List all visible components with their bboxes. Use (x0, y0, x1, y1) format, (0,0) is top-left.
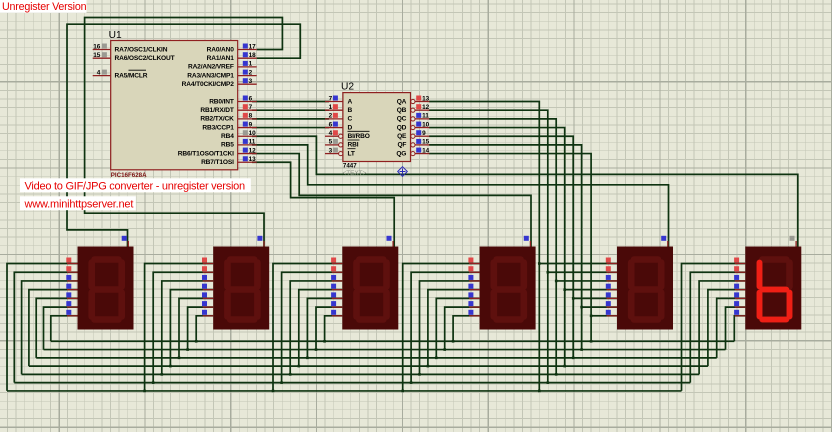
wire junction (452, 340, 455, 343)
wire junction (555, 373, 558, 376)
bus wire segment E (36, 357, 717, 359)
display 3 ghost segments (357, 260, 387, 320)
display 3 segment pin F (332, 306, 343, 308)
svg-text:RA2/AN2/VREF: RA2/AN2/VREF (188, 64, 234, 71)
display 4 segment pin D (469, 289, 480, 291)
display 6 segment pin F (735, 306, 746, 308)
U2 right pin 9 QE (411, 134, 415, 138)
svg-text:QC: QC (397, 116, 407, 123)
svg-text:QD: QD (397, 124, 407, 131)
wire junction (143, 390, 146, 393)
wire junction (547, 271, 550, 274)
U1 right pin 9 RB3/CCP1 (238, 127, 257, 129)
svg-text:RB2/TX/CK: RB2/TX/CK (200, 116, 234, 123)
wire riser display6 row 7 (734, 316, 745, 341)
display 6 segment pin E (735, 297, 746, 299)
display 6 lit segments f e d c g showing digit 6 (760, 263, 790, 320)
svg-text:RA3/AN3/CMP1: RA3/AN3/CMP1 (187, 72, 234, 79)
wire RB1 to U2 B (252, 109, 329, 111)
display 2 segment pin E (203, 297, 214, 299)
wire junction (161, 373, 164, 376)
svg-text:QA: QA (397, 98, 407, 105)
wire junction (590, 315, 593, 318)
wire net QA from U2 to bus (429, 102, 539, 391)
svg-text:LT: LT (348, 150, 355, 157)
display 4 segment pin F (469, 306, 480, 308)
wire riser display2 row 6 (188, 307, 214, 349)
wire riser display4 row 5 (436, 298, 479, 357)
wire riser display4 row 7 (453, 316, 480, 341)
svg-text:12: 12 (422, 104, 430, 111)
svg-text:RB5: RB5 (221, 142, 234, 149)
svg-text:www.minihttpserver.net: www.minihttpserver.net (24, 199, 134, 211)
svg-text:10: 10 (249, 130, 257, 137)
display 6 segment pin B (735, 271, 746, 273)
bus wire segment B (14, 382, 690, 384)
svg-text:18: 18 (249, 52, 257, 59)
display 1 common pin (127, 241, 129, 247)
display 2 segment pin A (203, 263, 214, 265)
svg-text:RB4: RB4 (221, 133, 234, 140)
display 3 segment pin C (332, 280, 343, 282)
display 4 segment pin C (469, 280, 480, 282)
U2 left pin 7 A (325, 101, 343, 103)
U1 right pin 2 RA3/AN3/CMP1 (238, 75, 257, 77)
op-amp U1 PIC16F628A microcontroller body (111, 41, 238, 170)
svg-text:RB0/INT: RB0/INT (209, 98, 234, 105)
wire display1 pin row 5 to bus (36, 298, 77, 357)
wire junction (178, 357, 181, 360)
svg-text:15: 15 (422, 139, 430, 146)
wire riser display4 row 1 (403, 264, 480, 391)
U1 right pin 1 RA2/AN2/VREF (238, 66, 257, 68)
display 1 segment pin A (67, 263, 78, 265)
wire riser display6 row 2 (690, 272, 745, 382)
wire net QG from U2 to bus (429, 154, 591, 342)
U2 left pin 3 LT (325, 153, 339, 155)
display 1 ghost segments (92, 260, 122, 320)
U1 right pin 6 RB0/INT (238, 101, 257, 103)
display 4 ghost segments (494, 260, 524, 320)
svg-text:8: 8 (249, 113, 253, 120)
wire riser display3 row 7 (325, 316, 343, 341)
wire junction (443, 348, 446, 351)
wire RB0 to U2 A (252, 101, 329, 103)
svg-text:B: B (348, 107, 353, 114)
svg-text:D: D (348, 124, 353, 131)
svg-text:<TEXT>: <TEXT> (343, 170, 367, 177)
svg-text:3: 3 (329, 147, 333, 154)
wire riser display6 row 6 (726, 307, 746, 349)
watermark unregister version top (0, 0, 87, 13)
svg-text:15: 15 (93, 52, 101, 59)
wire riser display6 row 5 (717, 298, 746, 357)
U1 right pin 18 RA1/AN1 (238, 57, 257, 59)
display 6 segment pin G (735, 315, 746, 317)
7-segment display 5 body (617, 247, 673, 330)
wire net RB7 to display3 common (252, 162, 394, 246)
display 4 common pin (529, 241, 531, 247)
svg-text:7447: 7447 (343, 163, 357, 170)
wire riser display6 row 3 (699, 281, 745, 374)
wire riser display4 row 6 (445, 307, 480, 349)
wire net RA1 to display1 common (67, 24, 300, 246)
U1 MCLR overline (129, 69, 147, 71)
svg-text:RB6/T1OSO/T1CKI: RB6/T1OSO/T1CKI (178, 150, 234, 157)
wire junction (547, 381, 550, 384)
display 2 common pin (263, 241, 265, 247)
bus wire segment D (29, 365, 708, 367)
display 6 segment pin D (735, 289, 746, 291)
U1 left pin 15 RA6/OSC2/CLKOUT (93, 57, 111, 59)
svg-text:17: 17 (249, 43, 257, 50)
svg-text:RA6/OSC2/CLKOUT: RA6/OSC2/CLKOUT (115, 55, 175, 62)
7-segment display 4 body (480, 247, 536, 330)
wire tap QC to display5 row 3 (556, 280, 617, 282)
svg-text:2: 2 (249, 69, 253, 76)
svg-text:RB7/T1OSI: RB7/T1OSI (201, 159, 234, 166)
display 1 segment pin E (67, 297, 78, 299)
display 3 segment pin G (332, 315, 343, 317)
U2 right pin 14 QG (411, 151, 415, 155)
wire junction (572, 297, 575, 300)
svg-text:11: 11 (422, 113, 429, 120)
display 5 segment pin A (607, 263, 618, 265)
svg-text:RBI: RBI (348, 142, 359, 149)
display 6 segment pin C (735, 280, 746, 282)
display 1 segment pin D (67, 289, 78, 291)
wire junction (280, 381, 283, 384)
wire junction (572, 357, 575, 360)
wire junction (186, 348, 189, 351)
svg-text:BI/RBO: BI/RBO (348, 133, 370, 140)
wire net QB from U2 to bus (429, 110, 548, 382)
wire junction (289, 373, 292, 376)
wire riser display4 row 2 (411, 272, 480, 382)
wire junction (563, 365, 566, 368)
display 5 segment pin B (607, 271, 618, 273)
U2 origin marker diamond (398, 167, 408, 177)
svg-text:1: 1 (329, 104, 333, 111)
wire display1 pin row 3 to bus (22, 281, 78, 374)
wire riser display3 row 2 (282, 272, 343, 382)
wire junction (298, 365, 301, 368)
wire tap QG to display5 row 7 (591, 315, 617, 317)
svg-text:QF: QF (397, 142, 406, 149)
svg-text:14: 14 (422, 147, 430, 154)
display 2 segment pin C (203, 280, 214, 282)
wire riser display2 row 3 (162, 281, 213, 374)
U2 left pin 2 C (325, 118, 343, 120)
wire display1 pin row 6 to bus (44, 307, 78, 349)
svg-text:4: 4 (97, 69, 101, 76)
svg-text:4: 4 (329, 130, 333, 137)
U1 right pin 12 RB6/T1OSO/T1CKI (238, 153, 257, 155)
svg-text:5: 5 (329, 139, 333, 146)
U1 right pin 3 RA4/T0CKI/CMP2 (238, 83, 257, 85)
wire junction (427, 365, 430, 368)
display 3 segment pin D (332, 289, 343, 291)
wire RB2 to U2 C (252, 118, 329, 120)
svg-text:RB1/RX/DT: RB1/RX/DT (200, 107, 234, 114)
U2 right pin 15 QF (411, 143, 415, 147)
wire riser display3 row 1 (273, 264, 342, 391)
wire net QE from U2 to bus (429, 136, 573, 358)
wire tap QE to display5 row 5 (573, 297, 617, 299)
wire tap QA to display5 row 1 (539, 263, 617, 265)
wire junction (169, 365, 172, 368)
wire junction (401, 390, 404, 393)
svg-text:12: 12 (249, 147, 257, 154)
svg-text:C: C (348, 116, 353, 123)
display 1 segment pin C (67, 280, 78, 282)
svg-text:Unregister Version: Unregister Version (2, 1, 87, 13)
wire net QD from U2 to bus (429, 128, 565, 367)
display 5 segment pin C (607, 280, 618, 282)
7-segment display 3 body (342, 247, 398, 330)
U2 left pin 5 RBI (325, 144, 339, 146)
svg-text:9: 9 (422, 130, 426, 137)
wire junction (195, 340, 198, 343)
U2 right pin 10 QD (411, 125, 415, 129)
display 2 segment pin D (203, 289, 214, 291)
display 2 segment pin B (203, 271, 214, 273)
wire riser display3 row 4 (299, 290, 343, 366)
display 4 segment pin B (469, 271, 480, 273)
display 3 segment pin A (332, 263, 343, 265)
wire junction (555, 280, 558, 283)
display 2 ghost segments (227, 260, 257, 320)
display 4 segment pin A (469, 263, 480, 265)
display 2 segment pin F (203, 306, 214, 308)
svg-text:7: 7 (329, 95, 333, 102)
wire tap QB to display5 row 2 (548, 271, 617, 273)
display 3 segment pin E (332, 297, 343, 299)
watermark url line (20, 196, 136, 210)
U2 right pin 13 QA (411, 99, 415, 103)
wire junction (563, 288, 566, 291)
svg-text:QB: QB (397, 107, 407, 114)
display 5 common pin (667, 241, 669, 247)
svg-text:RA1/AN1: RA1/AN1 (207, 55, 235, 62)
U2 BI/RBO overline (348, 130, 370, 132)
svg-text:2: 2 (329, 113, 333, 120)
svg-text:QE: QE (397, 133, 407, 140)
wire riser display4 row 3 (420, 281, 480, 374)
wire display1 pin row 4 to bus (29, 290, 78, 366)
U2 right pin 12 QB (411, 108, 415, 112)
bus wire segment G (51, 340, 735, 342)
wire riser display2 row 1 (145, 264, 214, 391)
wire junction (272, 390, 275, 393)
svg-text:RA0/AN0: RA0/AN0 (207, 46, 235, 53)
wire riser display2 row 7 (196, 316, 213, 341)
svg-text:16: 16 (93, 43, 101, 50)
svg-text:6: 6 (249, 95, 253, 102)
wire display1 pin row 7 to bus (51, 316, 78, 341)
display 2 segment pin G (203, 315, 214, 317)
display 4 segment pin G (469, 315, 480, 317)
display 1 segment pin B (67, 271, 78, 273)
display 6 common pin (795, 241, 797, 247)
U1 right pin 10 RB4 (238, 135, 257, 137)
U2 left pin 4 BI/RBO (325, 135, 339, 137)
svg-text:U2: U2 (341, 82, 354, 93)
display 1 segment pin F (67, 306, 78, 308)
bus wire segment F (44, 349, 726, 351)
wire junction (580, 306, 583, 309)
svg-text:13: 13 (249, 156, 257, 163)
svg-text:RA5/MCLR: RA5/MCLR (115, 72, 148, 79)
svg-text:11: 11 (249, 139, 256, 146)
wire junction (538, 390, 541, 393)
display 5 segment pin D (607, 289, 618, 291)
svg-text:QG: QG (396, 150, 406, 157)
display 1 segment pin G (67, 315, 78, 317)
wire net QC from U2 to bus (429, 119, 556, 375)
wire tap QD to display5 row 4 (565, 289, 617, 291)
wire junction (418, 373, 421, 376)
wire riser display2 row 2 (153, 272, 213, 382)
wire riser display6 row 4 (708, 290, 745, 366)
svg-text:PIC16F628A: PIC16F628A (111, 172, 147, 179)
svg-text:RA4/T0CKI/CMP2: RA4/T0CKI/CMP2 (182, 81, 235, 88)
wire display1 pin row 2 to bus (14, 272, 77, 382)
svg-text:A: A (348, 98, 353, 105)
U2 left pin 6 D (325, 127, 343, 129)
wire net RA0 to display2 common (85, 18, 283, 247)
wire riser display4 row 4 (428, 290, 480, 366)
wire tap QF to display5 row 6 (582, 306, 617, 308)
svg-text:U1: U1 (109, 30, 122, 41)
U1 right pin 17 RA0/AN0 (238, 49, 257, 51)
wire net RB6 to display4 common (252, 154, 531, 247)
svg-text:3: 3 (249, 78, 253, 85)
svg-text:Video to GIF/JPG converter - u: Video to GIF/JPG converter - unregister … (25, 181, 245, 193)
svg-text:1: 1 (249, 61, 253, 68)
wire net QF from U2 to bus (429, 145, 582, 350)
svg-text:7: 7 (249, 104, 253, 111)
display 4 segment pin E (469, 297, 480, 299)
wire display1 pin row 1 to bus (7, 264, 78, 391)
wire RB3 to U2 D (252, 127, 329, 129)
7-segment display 2 body (213, 247, 269, 330)
display 6 ghost segments (760, 260, 790, 320)
7-segment display 6 body (745, 247, 801, 330)
U2 left pin 1 B (325, 109, 343, 111)
svg-text:6: 6 (329, 121, 333, 128)
display 3 segment pin B (332, 271, 343, 273)
7-segment display 1 body (78, 247, 134, 330)
display 5 ghost segments (631, 260, 661, 320)
svg-text:9: 9 (249, 121, 253, 128)
svg-text:10: 10 (422, 121, 430, 128)
U2 RBI overline (348, 139, 360, 141)
wire junction (306, 357, 309, 360)
U2 right pin 11 QC (411, 117, 415, 121)
wire junction (435, 357, 438, 360)
svg-text:RB3/CCP1: RB3/CCP1 (202, 124, 234, 131)
wire riser display3 row 5 (307, 298, 342, 357)
display 5 segment pin G (607, 315, 618, 317)
wire junction (152, 381, 155, 384)
display 6 segment pin A (735, 263, 746, 265)
svg-text:13: 13 (422, 95, 430, 102)
U1 left pin 4 RA5/MCLR (93, 75, 111, 77)
wire junction (323, 340, 326, 343)
wire riser display2 row 4 (170, 290, 213, 366)
bus wire segment C (22, 373, 700, 375)
wire riser display6 row 1 (682, 264, 746, 391)
wire net RB4 to display6 common (252, 136, 798, 246)
bus wire segment A (7, 390, 682, 392)
watermark video converter line (20, 178, 251, 192)
wire riser display3 row 6 (316, 307, 342, 349)
U2 LT overline (348, 148, 356, 150)
wire junction (590, 340, 593, 343)
U1 right pin 11 RB5 (238, 144, 257, 146)
U1 right pin 8 RB2/TX/CK (238, 118, 257, 120)
U1 left pin 16 RA7/OSC1/CLKIN (93, 49, 111, 51)
display 5 segment pin E (607, 297, 618, 299)
wire junction (410, 381, 413, 384)
wire net RB5 to display5 common (252, 145, 669, 247)
svg-text:RA7/OSC1/CLKIN: RA7/OSC1/CLKIN (115, 46, 168, 53)
U1 right pin 7 RB1/RX/DT (238, 109, 257, 111)
wire junction (580, 348, 583, 351)
logic chip U2 7447 body (343, 93, 411, 162)
wire riser display3 row 3 (290, 281, 342, 374)
wire riser display2 row 5 (179, 298, 213, 357)
display 5 segment pin F (607, 306, 618, 308)
U1 right pin 13 RB7/T1OSI (238, 161, 257, 163)
display 3 common pin (392, 241, 394, 247)
wire junction (538, 262, 541, 265)
wire junction (315, 348, 318, 351)
